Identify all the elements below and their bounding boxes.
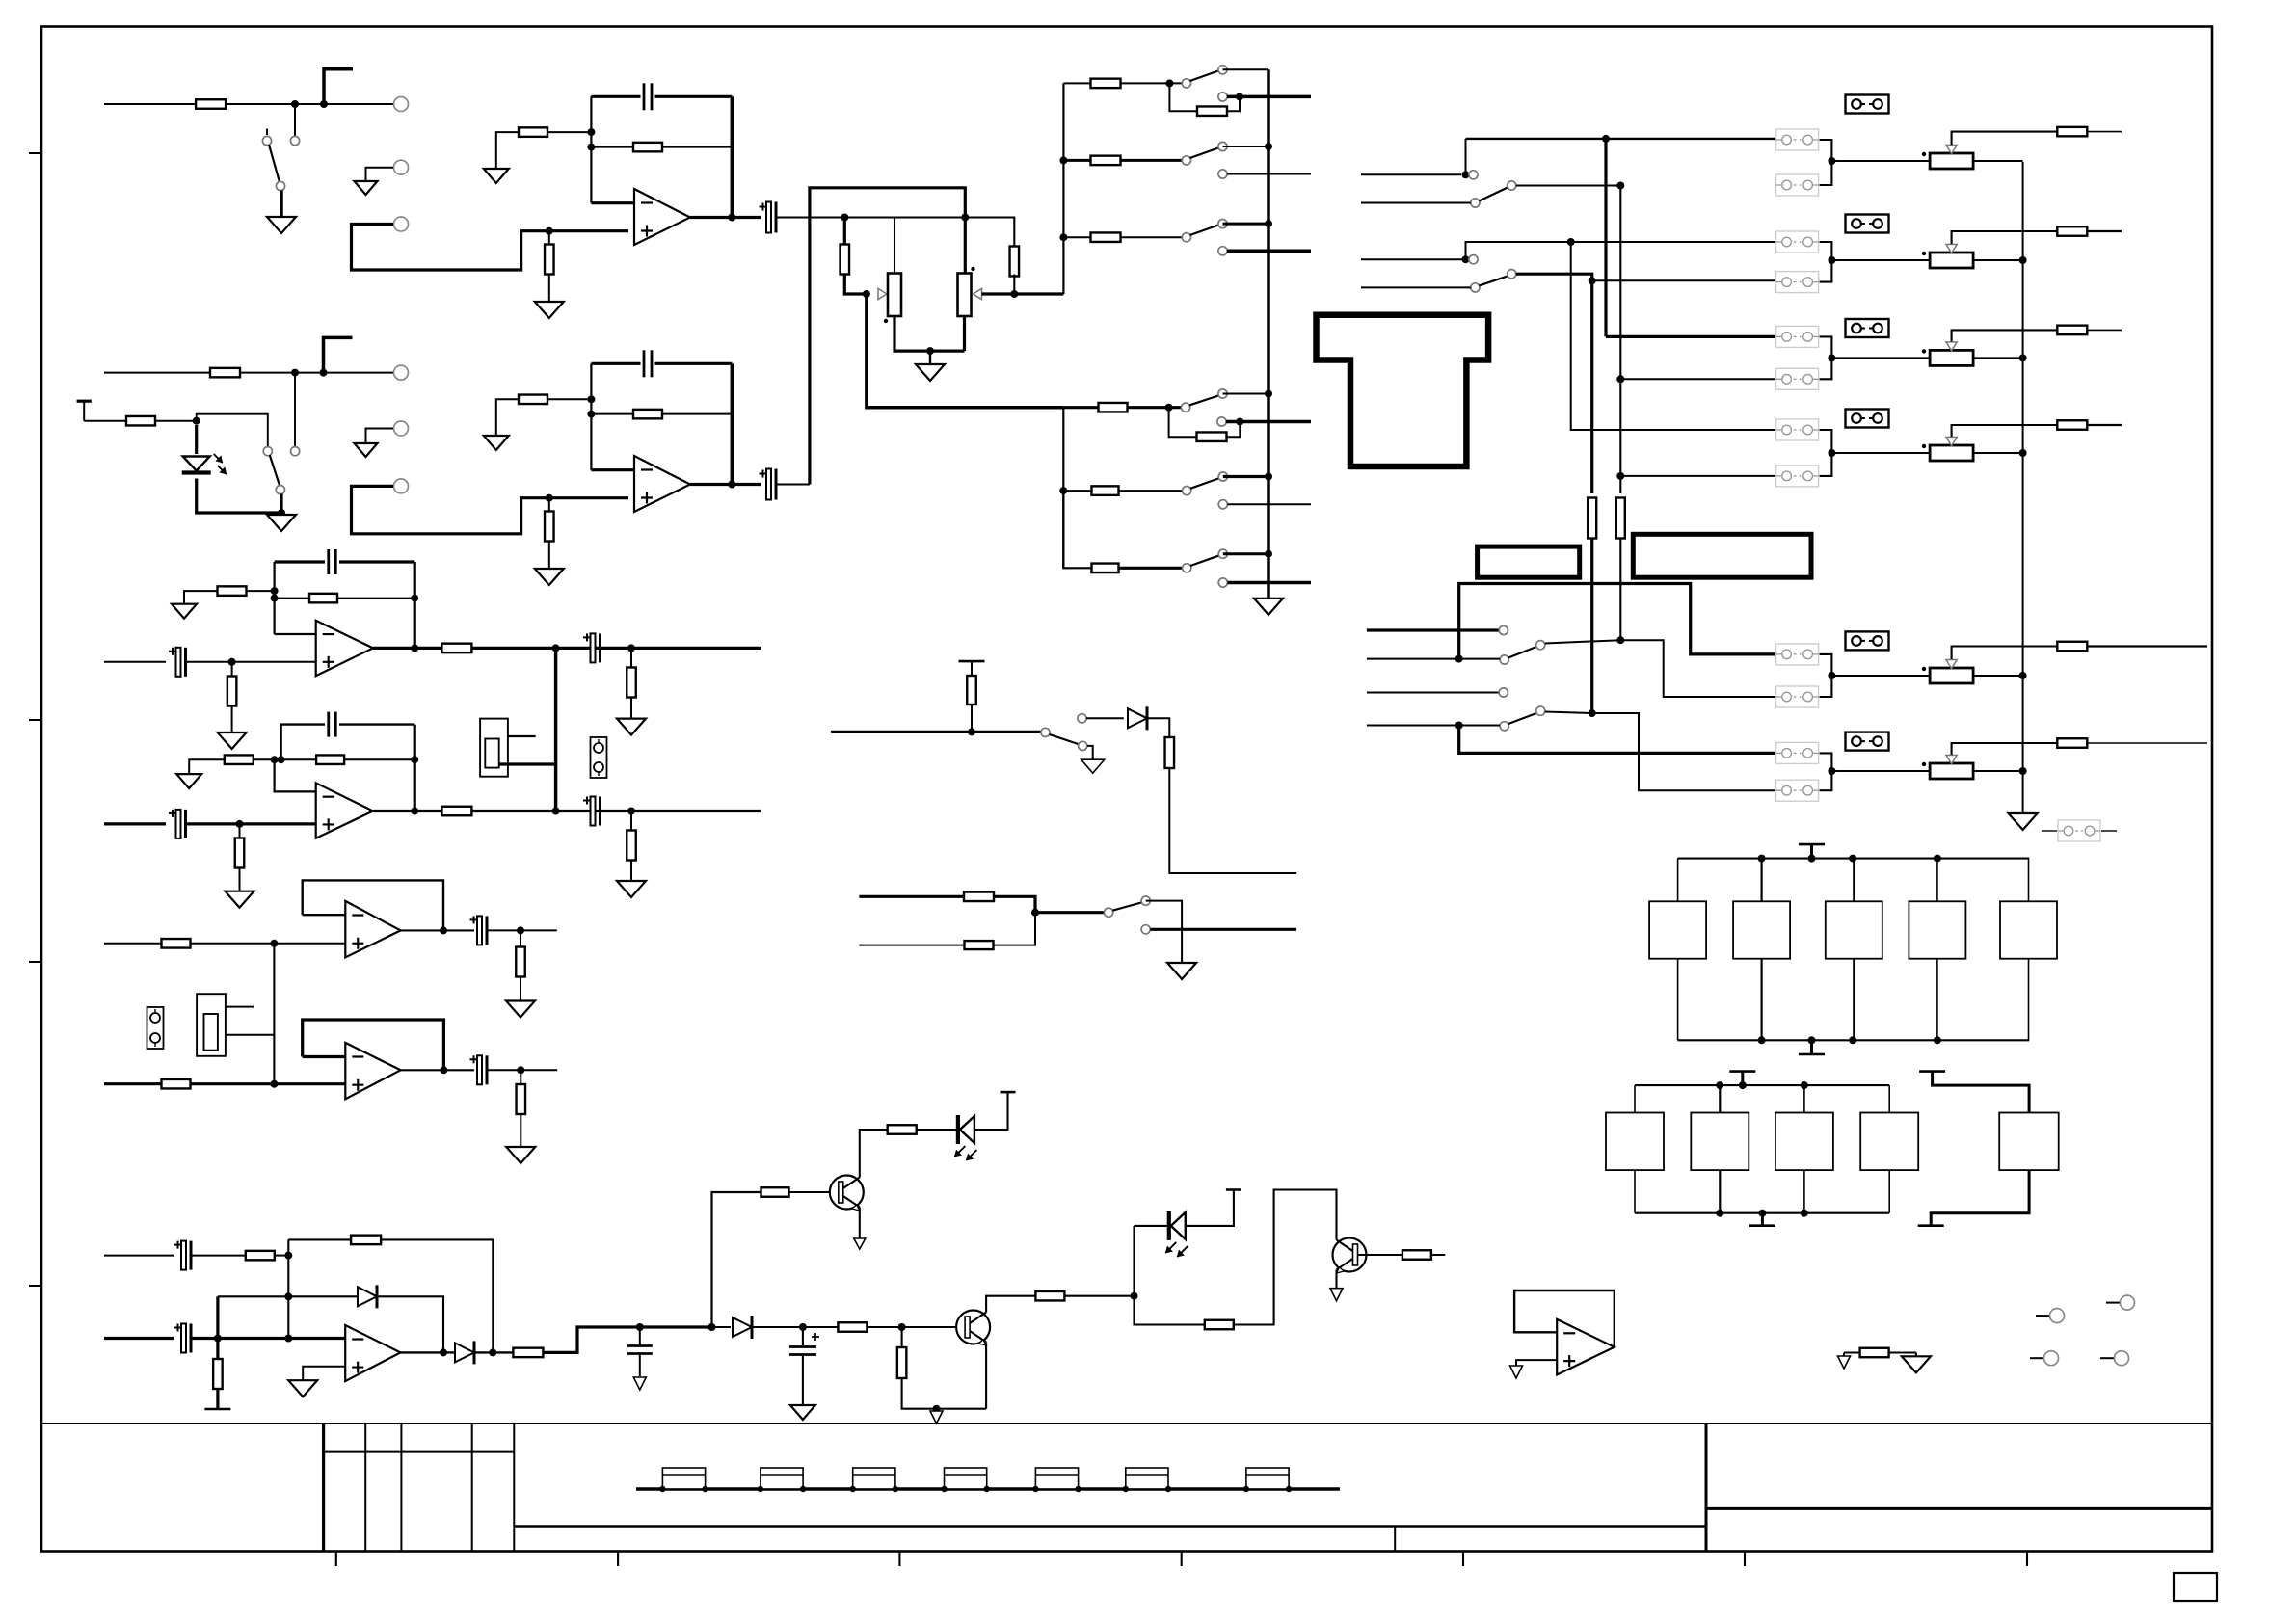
wire [591, 146, 732, 148]
resistor R40 [246, 1251, 275, 1261]
wire [601, 811, 669, 812]
wire CH2 input [104, 372, 211, 374]
resistor R3 [519, 127, 547, 137]
terminal block TB6 [1123, 1468, 1172, 1492]
ground [218, 732, 247, 749]
ground [916, 364, 945, 381]
resistor R42 [213, 1359, 223, 1389]
resistor R9 [1091, 156, 1121, 166]
wire [187, 820, 316, 828]
ground [930, 1411, 943, 1423]
diode D2 [1128, 706, 1147, 730]
wire bank2 top bus [1635, 1081, 1889, 1089]
wire [974, 1092, 1016, 1130]
ground [633, 1377, 646, 1390]
terminal block TB7 [1243, 1468, 1293, 1492]
jumper JP9 [147, 1007, 164, 1049]
jumper JP6b [1776, 780, 1819, 801]
wire [778, 214, 1015, 222]
wire [1459, 726, 1775, 754]
resistor R34 [2057, 420, 2087, 430]
resistor R31 [2057, 127, 2087, 137]
wire stub [1361, 173, 1461, 175]
wire [1915, 1353, 1917, 1357]
wire [1133, 1226, 1135, 1296]
wire [496, 132, 519, 169]
wire [197, 414, 268, 447]
wire [184, 591, 217, 604]
wiper [1946, 330, 2058, 351]
resistor R15 [633, 410, 662, 419]
terminal block TB3 [850, 1468, 899, 1492]
jumper JP7 [2042, 820, 2117, 841]
relay K10 [1999, 1113, 2059, 1171]
wire [1135, 1296, 1205, 1325]
wire [2087, 645, 2207, 647]
wire [411, 562, 418, 648]
wire [84, 420, 126, 422]
switch S7 [1183, 472, 1228, 509]
wire [1831, 452, 1930, 454]
block rect B [1633, 534, 1811, 577]
relay K1 [1649, 859, 1706, 1041]
wire [1226, 96, 1240, 111]
resistor R12 [126, 416, 155, 426]
connector pin [2036, 1309, 2065, 1323]
capacitor C8 [169, 810, 186, 838]
wire [591, 201, 634, 204]
jumper JP3c [1846, 319, 1889, 337]
ground [2009, 813, 2038, 830]
jumper JP5b [1776, 686, 1819, 707]
wire [1120, 79, 1182, 87]
wire [218, 1295, 288, 1297]
jumper JP3b [1776, 368, 1819, 389]
wire [1571, 242, 1775, 430]
wire [1063, 491, 1091, 568]
wire [1620, 475, 1775, 477]
wire [1086, 717, 1124, 719]
ground [226, 891, 254, 908]
wire [1227, 93, 1311, 100]
wiper [1946, 425, 2058, 446]
resistor R20 [1616, 498, 1625, 539]
connector J1 pin3 [394, 217, 409, 231]
wire [520, 930, 521, 1000]
relay K6 [1606, 1085, 1664, 1213]
wire [1169, 83, 1197, 111]
ground [617, 881, 646, 897]
wire [520, 1070, 521, 1147]
wire [591, 362, 732, 365]
jumper JP1a [1776, 129, 1819, 150]
op-amp U1B [634, 456, 690, 512]
wire [275, 1252, 293, 1260]
transistor Q3 [956, 1311, 990, 1346]
wire [1545, 640, 1621, 643]
wire [471, 644, 761, 652]
wire [894, 218, 895, 274]
wire [1973, 354, 2027, 361]
connector J1 pin [394, 97, 409, 112]
wire [1063, 236, 1090, 238]
wire [965, 218, 1014, 250]
diode D3 [358, 1285, 377, 1308]
resistor R37 [1165, 737, 1175, 768]
wire [1973, 256, 2027, 264]
wire [104, 1255, 174, 1257]
jumper JP4c [1846, 410, 1889, 428]
diode D4 [455, 1341, 474, 1364]
resistor R21 [1588, 498, 1596, 539]
resistor R51 [1860, 1348, 1889, 1358]
wire [1227, 503, 1311, 505]
resistor R7 [1091, 79, 1121, 89]
wire [226, 100, 393, 108]
block T-shape [1317, 315, 1489, 466]
wire [859, 895, 964, 898]
wire [1226, 418, 1311, 426]
switch S3 [1182, 142, 1227, 178]
wire [496, 399, 519, 436]
capacitor C5 [169, 648, 186, 677]
wire [1335, 1270, 1337, 1289]
wire [1820, 430, 1836, 476]
wire [366, 168, 394, 180]
wire [1843, 1353, 1845, 1357]
wire pot rail [810, 188, 965, 485]
resistor R34 [162, 1079, 191, 1089]
jumper JP4a [1776, 419, 1819, 440]
capacitor C15 [627, 1327, 653, 1376]
wire stub [1361, 258, 1469, 260]
resistor R13 [545, 512, 554, 542]
wire [489, 1066, 558, 1074]
wire [867, 1326, 965, 1328]
wire [1604, 139, 1607, 337]
resistor R29 [316, 755, 344, 764]
terminal block TB4 [941, 1468, 990, 1492]
transistor Q1 [830, 1176, 864, 1211]
resistor R44 [761, 1187, 789, 1197]
relay K5 [2000, 859, 2057, 1041]
potentiometer VR2 [958, 267, 975, 316]
jumper JP1c [1846, 95, 1889, 114]
wire [197, 479, 285, 518]
resistor R33 [2057, 326, 2087, 335]
ground [355, 443, 378, 457]
wire bank1 bottom bus [1678, 1036, 2030, 1044]
wire stub [1361, 286, 1471, 288]
wire [591, 413, 732, 415]
op-amp U5 [345, 901, 400, 958]
ground [617, 719, 646, 735]
wire [303, 1020, 444, 1070]
wire [985, 1343, 987, 1409]
potentiometer VR5 [1922, 349, 1973, 365]
wire [275, 560, 415, 563]
wire [860, 1130, 888, 1178]
wire [288, 1238, 351, 1240]
resistor R35 [517, 1084, 526, 1114]
wire [1589, 539, 1596, 717]
wiper [1946, 132, 2058, 154]
sheet number box [2174, 1573, 2217, 1601]
wire [982, 290, 1019, 298]
wire [226, 1006, 254, 1008]
jumper JP6c [1846, 732, 1889, 751]
jumper JP5a [1776, 644, 1819, 665]
wire [1063, 404, 1182, 412]
ground [790, 1405, 815, 1420]
connector J1 pin2 [394, 160, 409, 174]
resistor R45 [888, 1125, 917, 1134]
wire [1462, 139, 1470, 178]
wire [239, 824, 241, 891]
switch S10 [1105, 896, 1151, 934]
wire bus [1265, 69, 1272, 599]
terminal block TB5 [1032, 1468, 1081, 1492]
ground [355, 181, 378, 195]
wire [1223, 68, 1269, 70]
left fold ticks [29, 153, 41, 1286]
wire [1223, 552, 1268, 555]
capacitor C1 [644, 83, 652, 110]
wire [1973, 160, 2023, 162]
wire [401, 926, 474, 934]
connector jack J4 [197, 994, 226, 1056]
capacitor C3 [644, 350, 652, 377]
title block lines [41, 1423, 2212, 1552]
jumper JP4b [1776, 466, 1819, 487]
wire [104, 822, 166, 825]
wire [690, 481, 761, 489]
jumper JP2c [1846, 215, 1889, 233]
wire [401, 1066, 474, 1074]
bottom fold ticks [336, 1552, 2027, 1567]
wire [1227, 173, 1311, 175]
jumper JP6a [1776, 742, 1819, 763]
wire [1063, 82, 1090, 84]
relay K3 [1826, 859, 1882, 1041]
ground [267, 515, 296, 531]
relay K7 [1691, 1085, 1749, 1213]
wire [1462, 238, 1775, 263]
wire [1119, 567, 1183, 570]
wire [1226, 422, 1240, 438]
resistor R2 [545, 245, 554, 275]
wire [231, 662, 233, 732]
resistor R49 [1205, 1320, 1234, 1330]
wire [373, 644, 442, 652]
resistor R27 [235, 838, 245, 868]
wire [1516, 182, 1625, 190]
relay K4 [1909, 859, 1965, 1041]
wire [1063, 159, 1090, 162]
wire [1831, 770, 1930, 772]
wire [1013, 275, 1015, 295]
resistor R10 [1091, 232, 1121, 242]
wire [273, 944, 275, 1084]
wire [191, 1080, 346, 1088]
resistor R25 [441, 644, 471, 653]
wire [275, 633, 316, 635]
wire [344, 756, 418, 763]
capacitor C7 [583, 633, 601, 662]
relay K2 [1733, 859, 1790, 1041]
wire [1606, 335, 1775, 338]
wire [968, 705, 975, 735]
switch S5 [263, 447, 300, 494]
wire [591, 95, 732, 98]
terminal block TB2 [758, 1468, 807, 1492]
wire [1616, 186, 1624, 480]
wire bus feed CH1 [1059, 83, 1067, 294]
capacitor C16 [789, 1327, 819, 1405]
potentiometer VR1 [884, 274, 901, 324]
antenna stub CH2 [324, 337, 353, 372]
relay K9 [1860, 1085, 1918, 1213]
ground tap [1918, 1170, 2029, 1226]
wire [590, 96, 592, 202]
wire [548, 231, 550, 302]
resistor R36 [2057, 738, 2087, 748]
op-amp U4 [316, 783, 373, 838]
ground [506, 1001, 535, 1018]
wire [303, 880, 443, 930]
resistor R23 [218, 586, 247, 596]
wire [104, 661, 166, 663]
wire [963, 316, 966, 351]
wire [352, 486, 629, 533]
capacitor C13 [174, 1241, 192, 1270]
wire [1147, 718, 1169, 737]
resistor R47 [897, 1347, 907, 1378]
resistor R26 [627, 668, 636, 698]
wire [1592, 713, 1775, 790]
switch S6 [1182, 389, 1228, 426]
wire [1620, 640, 1775, 697]
wire [803, 1323, 906, 1331]
connector pin [2106, 1295, 2135, 1310]
wire [1831, 675, 1930, 677]
ground [1081, 759, 1105, 773]
switch S9 [1041, 714, 1087, 751]
resistor R28 [225, 755, 254, 764]
wire [193, 1335, 346, 1343]
wire [155, 417, 200, 425]
wire [489, 926, 557, 934]
ground [1902, 1356, 1931, 1372]
wire [275, 598, 415, 599]
wire [843, 218, 846, 245]
wire [294, 104, 296, 137]
ground [176, 774, 201, 788]
wire [247, 587, 279, 602]
wire [1119, 490, 1183, 492]
wire [2087, 329, 2122, 331]
ground tap [1749, 1210, 1775, 1226]
wire [104, 1337, 174, 1340]
ground [854, 1238, 866, 1249]
op-amp U7 [1557, 1319, 1615, 1375]
wire [1831, 160, 1930, 162]
resistor R39 [965, 941, 994, 949]
ground [506, 1147, 535, 1163]
connector jack J3 [480, 719, 508, 777]
wire [474, 1348, 514, 1356]
wire [1150, 928, 1296, 931]
resistor R19 [1092, 564, 1119, 573]
wire [831, 731, 1041, 733]
power tap [1919, 1072, 2029, 1113]
potentiometer VR6 [1922, 444, 1973, 461]
wire [2087, 424, 2122, 426]
op-amp U1A [634, 189, 690, 245]
wire stub [1361, 202, 1471, 204]
capacitor C9 [329, 712, 336, 737]
wiper [1946, 231, 2058, 253]
wire stub [1367, 628, 1499, 631]
wire [543, 1323, 716, 1352]
ground [172, 604, 197, 619]
relay K8 [1775, 1085, 1833, 1213]
T stub [77, 401, 92, 421]
op-amp U8 [345, 1325, 400, 1381]
resistor R16 [1099, 403, 1128, 412]
wire [193, 1255, 246, 1257]
ground tap [1799, 1036, 1825, 1054]
wire [294, 373, 296, 447]
wire [986, 1296, 1035, 1313]
connector J2 pin3 [394, 479, 409, 493]
wire [1620, 378, 1775, 380]
wire [894, 316, 965, 355]
capacitor C12 [470, 1055, 488, 1084]
ground [1510, 1366, 1523, 1378]
capacitor C6 [329, 549, 336, 574]
wire [1459, 584, 1775, 659]
wiper [878, 288, 887, 299]
switch S4 [1182, 220, 1227, 255]
wire [1223, 475, 1268, 478]
ground [1167, 963, 1196, 979]
jumper JP1b [1776, 174, 1819, 196]
wire [281, 725, 415, 760]
wire [254, 756, 316, 763]
resistor R22 [227, 677, 237, 706]
wire [508, 735, 536, 737]
wire [1973, 449, 2027, 457]
wire [1227, 581, 1311, 585]
wire [867, 294, 1063, 408]
wire CH1 input [104, 103, 196, 105]
resistor R14 [519, 395, 547, 405]
wire [1820, 654, 1836, 697]
capacitor C11 [470, 916, 488, 945]
wire [1516, 274, 1596, 284]
wire [1146, 901, 1182, 963]
wire bank2 bottom bus [1635, 1210, 1889, 1217]
switch SA [1469, 171, 1516, 207]
wire [778, 483, 810, 485]
antenna stub CH1 [324, 69, 353, 104]
wire [499, 762, 556, 765]
wire bus feed CH2 [1059, 408, 1067, 569]
wire [1831, 259, 1930, 261]
wire [1820, 753, 1836, 790]
wire [2087, 131, 2122, 133]
